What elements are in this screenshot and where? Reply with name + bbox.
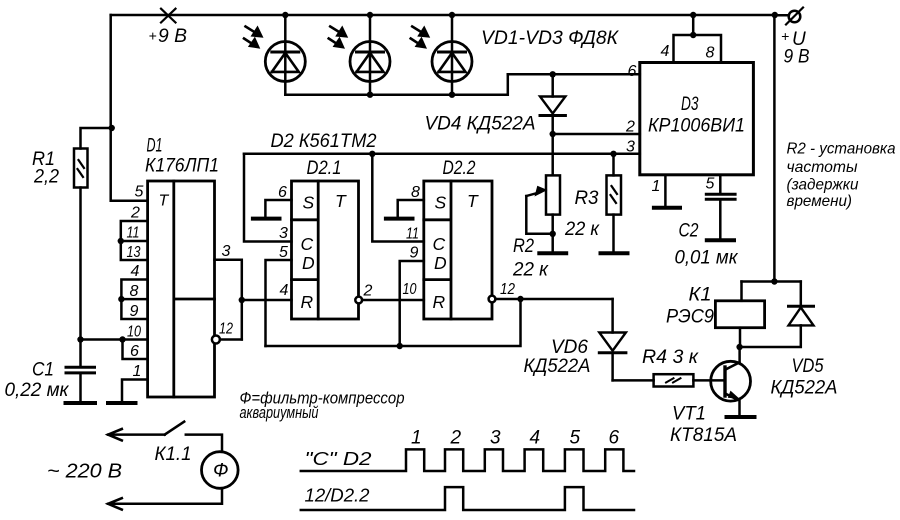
svg-text:2: 2 bbox=[450, 428, 462, 449]
D2.1 Q-bar pin 2 output bbox=[355, 297, 362, 304]
wire photodiode cathode rail bbox=[285, 74, 508, 94]
ground under VT1 emitter bbox=[727, 415, 755, 419]
svg-text:9 В: 9 В bbox=[784, 47, 810, 68]
svg-text:VD4 КД522А: VD4 КД522А bbox=[425, 113, 536, 135]
svg-text:R4 3 к: R4 3 к bbox=[642, 347, 699, 368]
svg-text:R: R bbox=[433, 292, 446, 312]
svg-text:3: 3 bbox=[626, 139, 635, 156]
wire to R1 top bbox=[81, 128, 112, 149]
ground under R3 bbox=[601, 251, 628, 255]
wire relay top tee bbox=[742, 280, 801, 283]
transistor VT1 КТ815А bbox=[738, 347, 741, 362]
svg-text:4: 4 bbox=[530, 428, 541, 449]
svg-text:VD1-VD3 ФД8К: VD1-VD3 ФД8К bbox=[481, 27, 619, 49]
wire VD6 to R4 bbox=[613, 379, 654, 382]
svg-text:С2: С2 bbox=[679, 220, 699, 242]
photodiode VD1 bbox=[244, 12, 305, 95]
pins 4,8,9 tie rectangles bbox=[121, 280, 147, 320]
svg-text:4: 4 bbox=[131, 263, 140, 280]
pin 5 of D3 and capacitor C2 bbox=[719, 175, 722, 193]
svg-text:C: C bbox=[301, 234, 314, 254]
node pin3/pin12 to R junction bbox=[239, 297, 245, 303]
svg-text:5: 5 bbox=[279, 244, 288, 261]
pin 3 of D1 wire bbox=[215, 260, 242, 340]
wire R net D1 pin3 to D2.1 R bbox=[242, 299, 292, 302]
R2 wiper arrow bbox=[526, 192, 540, 196]
svg-text:КД522А: КД522А bbox=[771, 378, 838, 399]
svg-text:VD6: VD6 bbox=[551, 337, 588, 358]
wire D3 pin 2 bbox=[553, 133, 640, 136]
capacitor C1 bbox=[66, 367, 95, 373]
svg-text:1: 1 bbox=[133, 363, 142, 380]
svg-text:К176ЛП1: К176ЛП1 bbox=[145, 156, 219, 177]
svg-text:6: 6 bbox=[609, 428, 620, 449]
wire Q2 output right bbox=[495, 298, 612, 301]
svg-text:аквариумный: аквариумный bbox=[240, 404, 319, 422]
svg-text:+: + bbox=[149, 28, 157, 44]
wire +U down to relay node bbox=[773, 15, 776, 282]
svg-text:R2: R2 bbox=[513, 236, 534, 257]
switch К1.1 top lead with arrow bbox=[108, 433, 165, 436]
svg-text:~ 220 В: ~ 220 В bbox=[47, 461, 122, 483]
svg-text:времени): времени) bbox=[787, 193, 853, 210]
ground under D3 pin 1 bbox=[654, 206, 680, 210]
wire Q1 to D2.2 R pin 10 bbox=[362, 299, 424, 302]
svg-text:частоты: частоты bbox=[787, 159, 858, 176]
pin 12 of D1 inverted output bbox=[212, 336, 220, 344]
wire R1 bottom to C1 bbox=[79, 188, 82, 366]
photodiode VD2 bbox=[329, 12, 390, 98]
svg-text:0,01 мк: 0,01 мк bbox=[675, 248, 739, 269]
diode VD4 КД522А bbox=[551, 74, 554, 96]
svg-text:8: 8 bbox=[411, 184, 420, 201]
D2.1 C pin 3 wire up to clock bbox=[244, 154, 292, 242]
svg-text:КТ815А: КТ815А bbox=[670, 425, 737, 446]
svg-text:VD5: VD5 bbox=[792, 356, 824, 377]
svg-text:12: 12 bbox=[219, 321, 233, 338]
wire D feedback line bbox=[266, 299, 521, 346]
svg-text:22 к: 22 к bbox=[512, 260, 549, 281]
ground under C2 bbox=[707, 238, 734, 242]
D2.2 Q-bar pin 12 output bbox=[489, 296, 496, 303]
wire switch to motor bbox=[186, 435, 222, 452]
svg-text:2: 2 bbox=[363, 283, 373, 300]
svg-text:S: S bbox=[303, 193, 315, 213]
svg-text:2: 2 bbox=[625, 119, 635, 136]
photodiode VD3 bbox=[411, 12, 472, 98]
resistor R1 bbox=[74, 149, 88, 188]
svg-text:D2.2: D2.2 bbox=[443, 158, 476, 179]
flip-flop D2.1 box bbox=[292, 181, 359, 319]
node relay bottom / VD5 / collector bbox=[736, 344, 742, 350]
pins 11,13 tie rectangles bbox=[121, 241, 148, 260]
svg-text:1: 1 bbox=[652, 178, 661, 195]
svg-text:10: 10 bbox=[403, 281, 417, 298]
svg-text:(задержки: (задержки bbox=[787, 177, 859, 194]
svg-text:5: 5 bbox=[135, 184, 144, 201]
svg-text:11: 11 bbox=[127, 225, 140, 242]
pulse numbers 1-6 bbox=[411, 428, 620, 449]
svg-text:4: 4 bbox=[661, 43, 670, 60]
svg-text:КД522А: КД522А bbox=[524, 356, 591, 377]
wire D3 pin 3 long clock line bbox=[244, 153, 640, 156]
timing waveform 12/D2.2 bbox=[301, 487, 634, 510]
wire clock branch to D2.2 C bbox=[372, 154, 424, 242]
ground under R2 bbox=[539, 251, 566, 255]
svg-text:8: 8 bbox=[130, 283, 139, 300]
svg-text:R2 - установка: R2 - установка bbox=[787, 141, 896, 158]
IC D3 КР1006ВИ1 box bbox=[640, 63, 754, 175]
svg-text:T: T bbox=[335, 191, 347, 211]
diode VD6 КД522А bbox=[611, 299, 614, 333]
svg-text:22 к: 22 к bbox=[564, 219, 600, 240]
svg-text:D: D bbox=[434, 253, 447, 273]
ground under C1 bbox=[66, 401, 96, 405]
D2.2 S pin 8 grounded bbox=[398, 200, 424, 217]
svg-text:"С" D2: "С" D2 bbox=[305, 449, 372, 469]
ground bar at D2.1 S bbox=[253, 217, 280, 221]
D2.1 S pin 6 grounded bbox=[265, 200, 291, 217]
node R2 wiper tie bbox=[550, 231, 556, 237]
svg-text:R3: R3 bbox=[575, 188, 599, 209]
resistor R3 bbox=[612, 154, 615, 176]
bottom lead with arrow bbox=[108, 489, 222, 504]
node R3 top bbox=[610, 151, 616, 157]
ground under D1 pin 1 bbox=[108, 401, 136, 405]
svg-text:2,2: 2,2 bbox=[33, 167, 59, 188]
motor Ф circle bbox=[202, 452, 239, 489]
IC D1 К176ЛП1 box bbox=[148, 181, 215, 397]
svg-text:11: 11 bbox=[406, 226, 419, 243]
node VD4 top bbox=[550, 71, 556, 77]
pins 10,6 tie and wire to C1 node bbox=[81, 340, 148, 360]
break symbol X on +9V rail bbox=[161, 9, 176, 23]
diode VD5 КД522А bbox=[800, 282, 803, 307]
svg-text:D: D bbox=[302, 253, 315, 273]
svg-text:9 В: 9 В bbox=[158, 26, 187, 47]
svg-text:D1: D1 bbox=[147, 136, 163, 157]
svg-text:6: 6 bbox=[628, 63, 637, 80]
svg-text:T: T bbox=[467, 191, 479, 211]
svg-text:9: 9 bbox=[410, 245, 419, 262]
wire left feed down to D1 pin 5 bbox=[111, 15, 148, 201]
svg-text:+: + bbox=[781, 28, 789, 44]
svg-text:КР1006ВИ1: КР1006ВИ1 bbox=[648, 116, 745, 137]
svg-text:6: 6 bbox=[130, 343, 139, 360]
svg-text:К1.1: К1.1 bbox=[155, 444, 192, 465]
svg-text:С1: С1 bbox=[32, 359, 54, 381]
flip-flop D2.2 box bbox=[424, 181, 492, 319]
svg-text:10: 10 bbox=[127, 324, 141, 341]
wire R2 bottom bbox=[551, 215, 554, 252]
wire D3 pin 6 net bbox=[508, 73, 640, 76]
svg-text:6: 6 bbox=[278, 184, 287, 201]
svg-text:3: 3 bbox=[222, 243, 231, 260]
svg-text:D2 К561ТМ2: D2 К561ТМ2 bbox=[271, 131, 377, 152]
relay K1 РЭС9 coil bbox=[740, 282, 743, 301]
svg-text:РЭС9: РЭС9 bbox=[666, 307, 714, 328]
node clock branch bbox=[369, 151, 375, 157]
svg-text:VT1: VT1 bbox=[672, 404, 706, 425]
svg-text:8: 8 bbox=[706, 45, 715, 62]
node R1 top junction bbox=[109, 125, 115, 131]
svg-text:12: 12 bbox=[500, 281, 515, 298]
switch К1.1 blade bbox=[165, 422, 185, 435]
svg-text:12/D2.2: 12/D2.2 bbox=[305, 486, 370, 506]
svg-text:5: 5 bbox=[570, 428, 581, 449]
ground bar at D2.2 S bbox=[386, 217, 413, 221]
svg-text:3: 3 bbox=[490, 428, 501, 449]
svg-text:0,22 мк: 0,22 мк bbox=[5, 380, 70, 401]
svg-text:R: R bbox=[301, 292, 314, 312]
svg-text:5: 5 bbox=[706, 176, 715, 193]
svg-text:T: T bbox=[159, 193, 170, 210]
wire pins 4,8 bracket bbox=[674, 15, 722, 63]
svg-text:13: 13 bbox=[127, 244, 141, 261]
svg-text:D3: D3 bbox=[681, 94, 699, 115]
node VD4 to D3 pin 2 bbox=[550, 131, 556, 137]
resistor R2 variable bbox=[546, 175, 560, 214]
capacitor C2 bbox=[706, 194, 735, 199]
svg-text:S: S bbox=[435, 193, 447, 213]
svg-text:4: 4 bbox=[280, 282, 289, 299]
pin 2 of D1 bbox=[121, 221, 148, 241]
node C1 top / pin10 junction bbox=[77, 336, 83, 342]
svg-text:3: 3 bbox=[279, 225, 288, 242]
svg-text:К1: К1 bbox=[689, 285, 712, 306]
D2.1 D pin 5 wire bbox=[266, 260, 292, 346]
pin 1 of D3 to ground bbox=[664, 175, 667, 206]
D2.2 D pin 9 wire bbox=[400, 261, 424, 346]
terminal +U connector bbox=[775, 14, 789, 17]
node +U rail end bbox=[772, 12, 778, 18]
svg-text:2: 2 bbox=[130, 205, 140, 222]
pin 1 of D1 to ground bbox=[122, 380, 148, 402]
resistor R4 bbox=[654, 374, 694, 386]
svg-text:Ф: Ф bbox=[213, 460, 229, 482]
svg-text:1: 1 bbox=[411, 428, 422, 449]
timing waveform C of D2 bbox=[301, 449, 634, 471]
svg-text:9: 9 bbox=[130, 303, 139, 320]
svg-text:C: C bbox=[433, 234, 446, 254]
wire R4 to VT1 base bbox=[693, 379, 723, 382]
svg-text:D2.1: D2.1 bbox=[307, 158, 342, 179]
wire +9V top rail bbox=[111, 14, 775, 17]
